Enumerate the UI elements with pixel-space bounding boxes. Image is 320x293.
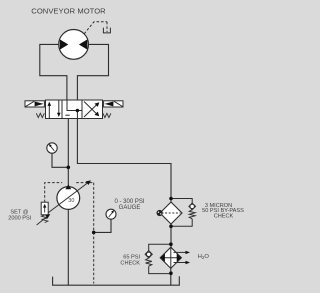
svg-text:30: 30 xyxy=(68,198,74,204)
svg-text:2000 PSI: 2000 PSI xyxy=(8,215,31,221)
svg-text:H2O: H2O xyxy=(198,254,210,260)
svg-text:GAUGE: GAUGE xyxy=(119,205,141,211)
svg-text:CHECK: CHECK xyxy=(120,260,140,266)
svg-text:CHECK: CHECK xyxy=(214,213,234,219)
svg-text:CONVEYOR MOTOR: CONVEYOR MOTOR xyxy=(31,7,106,16)
